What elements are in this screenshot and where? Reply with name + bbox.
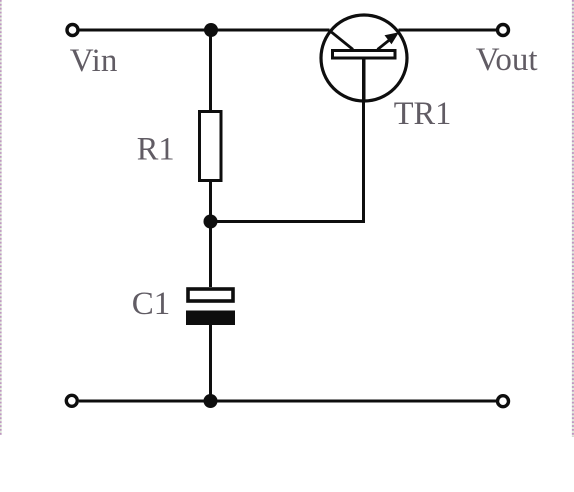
svg-text:Vout: Vout — [476, 42, 538, 78]
svg-text:TR1: TR1 — [394, 96, 452, 132]
svg-text:C1: C1 — [132, 286, 171, 322]
svg-text:R1: R1 — [137, 132, 175, 168]
svg-text:Vin: Vin — [70, 43, 118, 79]
